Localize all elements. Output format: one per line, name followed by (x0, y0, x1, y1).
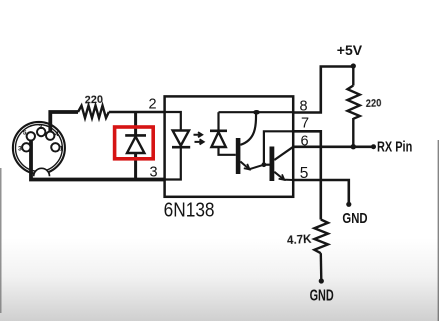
Q2 emitter with arrow to pin 5 (274, 172, 293, 180)
svg-text:2: 2 (149, 97, 157, 113)
svg-text:RX Pin: RX Pin (377, 138, 412, 155)
GND terminal dot (R3) (319, 278, 324, 283)
wire Q2 base node to Q2 bar (264, 164, 270, 166)
resistor R3 4.7K (vertical) (314, 220, 328, 281)
svg-text:5: 5 (23, 130, 27, 137)
DIN pin 2 (37, 124, 45, 136)
IC U1 6N138 package outline (165, 96, 294, 196)
DIN pin 5 (23, 130, 35, 141)
svg-text:4.7K: 4.7K (287, 232, 313, 248)
svg-text:GND: GND (342, 210, 367, 227)
svg-text:3: 3 (150, 165, 158, 181)
diode D1 (1N4148, pointing up) (125, 135, 146, 153)
Q1 emitter with arrow to Q2 base node (240, 162, 264, 170)
internal wire: photodiode anode to pin 8 rail (219, 111, 294, 113)
DIN pin 1 (51, 143, 63, 152)
RX Pin terminal dot (371, 144, 376, 149)
DIN-5 connector J1 body (13, 122, 65, 174)
svg-text:2: 2 (38, 124, 42, 131)
DIN keyway notch (34, 168, 50, 176)
pin 6 external wire to RX Pin (293, 146, 371, 149)
svg-text:6N138: 6N138 (164, 198, 215, 220)
diode D1 branch wire (vertical) (134, 112, 137, 180)
resistor R1 220 (horizontal) (78, 106, 109, 118)
Q1 collector wire to pin 8 rail (240, 113, 256, 145)
pin 7 external wire down to R3 (293, 131, 321, 219)
red highlight box around D1 (115, 127, 154, 159)
internal LED of U1 (165, 112, 191, 180)
svg-text:4: 4 (55, 131, 59, 138)
wire from DIN pin 4 to resistor R1 (50, 112, 78, 133)
junction dot at Q2 base node (262, 162, 267, 167)
junction dot pin6/R2 (351, 144, 356, 149)
junction dot on pin 8 rail (253, 110, 260, 115)
optical coupling arrows (194, 132, 204, 144)
+5V terminal dot (351, 63, 356, 68)
internal photodiode of U1 (210, 112, 236, 155)
wire from DIN pin 5 down and right to pin 3 of U1 (31, 139, 165, 180)
svg-text:GND: GND (310, 286, 334, 304)
Q2 collector wire to pin 6 (274, 147, 293, 160)
pin 8 external wire to +5V riser (293, 67, 353, 113)
DIN pin 3 (18, 143, 31, 152)
resistor R2 220 (vertical, pull-up) (348, 66, 360, 147)
transistor Q2 base bar (270, 147, 275, 182)
svg-text:220: 220 (84, 94, 103, 107)
pin 5 external wire to GND (293, 180, 349, 204)
transistor Q1 base bar (236, 138, 241, 174)
GND terminal dot (pin 5) (346, 202, 351, 207)
svg-text:7: 7 (301, 116, 309, 132)
internal wire: pin 7 down to Q2 base node (264, 131, 293, 164)
DIN pin 4 (46, 131, 59, 140)
svg-text:3: 3 (18, 145, 22, 152)
svg-text:+5V: +5V (337, 42, 363, 58)
svg-text:220: 220 (366, 96, 382, 110)
wire R1 to U1 pin 2 (node A) (109, 111, 165, 114)
svg-text:1: 1 (59, 145, 63, 152)
